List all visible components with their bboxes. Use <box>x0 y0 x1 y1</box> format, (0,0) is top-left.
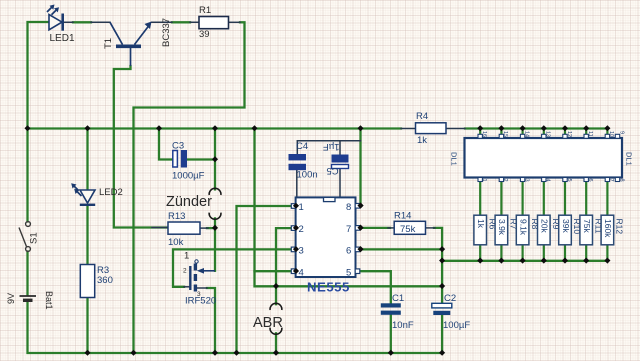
svg-text:360: 360 <box>97 275 113 286</box>
wire bus down through C3 node to Zuender upper pin <box>214 129 216 190</box>
svg-text:C3: C3 <box>172 141 184 152</box>
wire C3 right plate to Zuender node <box>187 158 215 160</box>
svg-text:LED1: LED1 <box>50 33 75 44</box>
node NE555 pin7 contact <box>357 225 363 231</box>
resistor R3 360 <box>80 265 113 298</box>
resistor R1 39 <box>199 5 229 40</box>
svg-text:DL1: DL1 <box>625 152 634 166</box>
svg-text:5: 5 <box>566 179 572 182</box>
node ground rail / pin1 <box>233 350 239 356</box>
junction dots (black diamonds) <box>24 125 610 356</box>
pin 8 <box>355 204 360 209</box>
node ground rail / R3 <box>84 350 90 356</box>
svg-text:2: 2 <box>502 179 508 182</box>
wire bus to R4 left lead <box>401 128 416 130</box>
wire C1 to ground rail <box>390 315 392 353</box>
pin 5 <box>355 269 360 274</box>
wire trigger link ABR node to C2 branch <box>255 271 443 286</box>
svg-text:R14: R14 <box>394 211 411 222</box>
connector ABR <box>253 303 283 334</box>
svg-text:R1: R1 <box>199 5 211 16</box>
wire NE555 pin1 to ground rail <box>237 206 292 353</box>
svg-text:R4: R4 <box>416 111 428 122</box>
op-amp U1 NE555 timer IC body <box>291 197 360 294</box>
svg-text:3: 3 <box>299 246 304 257</box>
wire T1 emitter lead to R1 <box>152 21 200 23</box>
node VCC bus / pin8 branch <box>357 125 363 131</box>
pin 6 <box>355 247 360 252</box>
node NE555 pin2 contact <box>293 225 299 231</box>
svg-text:IRF520: IRF520 <box>185 296 216 307</box>
svg-text:8: 8 <box>346 202 351 213</box>
wire R14 left lead <box>388 227 394 229</box>
svg-text:1k: 1k <box>476 219 486 229</box>
svg-text:6: 6 <box>346 246 351 257</box>
wire MOSFET source lead navy part <box>195 287 207 289</box>
svg-text:S1: S1 <box>29 232 40 244</box>
wire C5 top lead <box>339 141 341 155</box>
svg-text:3.9k: 3.9k <box>497 219 507 236</box>
wire T1 base down-left jog to R13 left <box>114 66 168 228</box>
wire MOSFET gate lead navy part <box>184 286 190 288</box>
svg-text:DL1: DL1 <box>450 152 459 166</box>
svg-text:1: 1 <box>481 179 487 182</box>
capacitor C1 10nF <box>381 293 414 331</box>
switch S1 <box>19 222 40 252</box>
node VCC bus / C3 branch <box>156 125 162 131</box>
DL1 top pin stubs <box>478 134 620 138</box>
svg-text:C4: C4 <box>296 141 308 152</box>
pin 7 <box>355 226 360 231</box>
svg-text:Bat1: Bat1 <box>44 291 54 310</box>
DL1 top pin number labels <box>481 131 624 137</box>
wire NE555 pin3 output to MOSFET gate <box>173 249 291 286</box>
svg-text:10nF: 10nF <box>392 320 414 331</box>
svg-text:R13: R13 <box>168 211 185 222</box>
svg-text:9V: 9V <box>6 293 16 304</box>
svg-text:1: 1 <box>184 251 189 262</box>
wire LED1 cathode lead to T1 collector <box>63 21 110 23</box>
wire battery - to ground rail corner <box>28 302 442 353</box>
svg-text:7: 7 <box>346 224 351 235</box>
wire left rail top segment (battery + to LED1) <box>28 22 49 129</box>
wire T1 emitter to R1 left green segment <box>172 21 190 23</box>
pin 3 <box>291 247 296 252</box>
resistor R14 75k <box>394 211 426 235</box>
node VCC bus / left rail <box>24 125 30 131</box>
wire R4 right lead <box>446 128 465 130</box>
svg-text:2: 2 <box>299 224 304 235</box>
svg-text:6: 6 <box>587 179 593 182</box>
node NE555 pin4 contact <box>293 268 299 274</box>
svg-text:NE555: NE555 <box>307 280 350 295</box>
wire R1 right lead <box>229 21 241 23</box>
wire ladder bottom bus <box>442 260 607 262</box>
wire R14 right down to ladder bottom bus <box>434 228 442 261</box>
svg-text:100n: 100n <box>297 170 318 181</box>
svg-text:100µF: 100µF <box>443 320 470 331</box>
svg-text:7: 7 <box>608 179 614 182</box>
DL1 bottom pin stubs <box>478 178 620 182</box>
wire bus to LED2 <box>86 129 88 190</box>
svg-text:C2: C2 <box>444 293 456 304</box>
svg-text:12: 12 <box>566 131 572 137</box>
node ladder bottom bus junctions <box>477 258 610 264</box>
wire NE555 pin2 to ABR node <box>276 228 291 286</box>
svg-text:5: 5 <box>346 268 351 279</box>
node R13 right / Zuender wire <box>212 225 218 231</box>
LED D1 (LED1) <box>47 5 75 45</box>
svg-text:1µF: 1µF <box>323 141 340 152</box>
svg-text:8: 8 <box>618 179 624 182</box>
resistor R12 160k <box>601 215 625 245</box>
DIP switch DL1 body <box>450 138 634 178</box>
svg-text:4: 4 <box>545 179 551 182</box>
resistor R11 75k <box>580 215 604 245</box>
svg-text:9.1k: 9.1k <box>518 219 528 236</box>
DL1 bottom pin number labels <box>481 179 624 182</box>
wire NE555 pin5 to C1 <box>361 271 391 303</box>
resistor R9 20k <box>538 215 562 245</box>
svg-text:20k: 20k <box>540 219 550 233</box>
svg-text:BC337: BC337 <box>161 18 172 47</box>
node VCC bus / pin4 branch <box>251 125 257 131</box>
svg-text:75k: 75k <box>400 224 416 235</box>
svg-text:C1: C1 <box>392 293 404 304</box>
svg-text:3: 3 <box>523 179 529 182</box>
wire C2 branch down <box>441 261 443 304</box>
wire VCC bus horizontal <box>28 127 402 129</box>
node ground rail / C1 <box>388 350 394 356</box>
wire Zuender lower pin to R13 right node and down to MOSFET drain <box>214 218 216 270</box>
node NE555 pin6 contact <box>357 246 363 252</box>
wire R13 right lead green part <box>207 227 215 229</box>
wire DL1 top pin leads from VCC bus <box>480 129 607 135</box>
svg-text:2: 2 <box>183 268 187 275</box>
node ground rail / C2 <box>439 350 445 356</box>
wire MOSFET source to ground rail <box>207 288 215 353</box>
node ladder bus / C2 branch <box>439 258 445 264</box>
wire ladder resistor bottoms to bottom bus <box>480 245 607 261</box>
resistor R8 9.1k <box>516 215 540 245</box>
svg-text:1: 1 <box>299 202 304 213</box>
wire NE555 pin7 to R14 <box>361 227 391 229</box>
LED D2 (LED2) <box>71 183 123 205</box>
pin 4 <box>291 269 296 274</box>
resistor R10 39k <box>559 215 583 245</box>
wire R3 to ground rail <box>86 298 88 354</box>
node NE555 pin1 contact <box>293 203 299 209</box>
connector Zuender (igniter plug) <box>166 188 221 219</box>
wire R1 right, down and across to T1 base net <box>134 22 245 353</box>
transistor Q1 IRF520 MOSFET <box>183 251 216 307</box>
node trigger link / C2 branch <box>439 283 445 289</box>
node ground rail / ABR <box>273 350 279 356</box>
capacitor C5 1uF (rotated 180) <box>323 141 349 176</box>
wire bus to NE555 pin4 <box>255 129 292 272</box>
svg-text:10k: 10k <box>168 237 184 248</box>
wire C4 bottom lead to NE555 pin1 <box>296 170 298 203</box>
wire ABR node to ABR upper pin <box>275 286 277 304</box>
node NE555 pin3 contact <box>293 246 299 252</box>
wire switch S1 to battery <box>26 252 28 295</box>
node VCC bus / Zuender branch <box>212 125 218 131</box>
node ground rail / R1 net <box>130 350 136 356</box>
node NE555 pin8 contact <box>357 203 363 209</box>
node ground rail / MOSFET source <box>212 350 218 356</box>
wire R13 right lead <box>200 227 208 229</box>
capacitor C2 100uF <box>432 293 471 331</box>
wire bus to C3 left plate <box>159 129 172 160</box>
node C3 right / Zuender wire <box>212 156 218 162</box>
wire R13 left lead <box>152 227 168 229</box>
resistor R13 10k <box>168 211 200 248</box>
svg-text:R12: R12 <box>615 219 625 235</box>
node ladder top bus junctions <box>477 125 610 131</box>
wire LED1 anode green segment <box>73 21 91 23</box>
resistor R6 1k <box>474 215 498 245</box>
svg-text:LED2: LED2 <box>99 187 123 198</box>
wire DL1 bottom pins to ladder resistor tops <box>480 182 607 216</box>
wire left rail: bus to switch S1 <box>26 129 28 222</box>
wire NE555 pin6 to R14 branch <box>361 248 443 250</box>
svg-text:C5: C5 <box>326 165 338 176</box>
svg-text:9: 9 <box>618 131 624 134</box>
node NE555 pin contact dots (drawn on top) <box>293 203 364 274</box>
svg-text:Zünder: Zünder <box>166 194 212 210</box>
node VCC bus / LED2 branch <box>84 125 90 131</box>
pin 2 <box>291 226 296 231</box>
node ABR / pin2 / trigger link <box>273 283 279 289</box>
svg-text:39k: 39k <box>561 219 571 233</box>
resistor R7 3.9k <box>495 215 518 245</box>
wire ABR lower pin to ground rail <box>275 333 277 353</box>
svg-text:11: 11 <box>587 131 593 137</box>
wire bus to NE555 pin8 <box>356 129 361 206</box>
svg-text:16: 16 <box>481 131 487 137</box>
resistor R4 1k <box>416 111 447 146</box>
pin 1 <box>291 204 296 209</box>
wire R14 right lead <box>426 227 436 229</box>
capacitor C3 1000uF <box>172 141 205 182</box>
svg-text:75k: 75k <box>582 219 592 233</box>
svg-text:160k: 160k <box>603 219 613 238</box>
svg-text:T1: T1 <box>103 38 114 49</box>
svg-text:1000µF: 1000µF <box>172 171 205 182</box>
svg-text:10: 10 <box>608 131 614 137</box>
svg-text:ABR: ABR <box>253 315 283 331</box>
svg-text:14: 14 <box>523 131 529 137</box>
wire LED2 cathode to R3 <box>86 206 88 265</box>
node pin6 / C2 branch <box>439 246 445 252</box>
svg-text:13: 13 <box>545 131 551 137</box>
wire C2 to ground rail <box>441 315 443 353</box>
transistor T1 BC337 <box>103 18 172 66</box>
wire C5 bottom lead to NE555 body <box>339 168 341 196</box>
svg-text:39: 39 <box>199 29 210 40</box>
svg-text:15: 15 <box>502 131 508 137</box>
svg-text:1k: 1k <box>417 135 427 146</box>
component lead wires (navy) <box>63 22 465 288</box>
battery Bat1 9V <box>6 291 54 310</box>
wire R4 right to ladder top bus <box>465 127 607 129</box>
svg-text:4: 4 <box>299 268 304 279</box>
wire C4 top lead to VCC vertical <box>297 141 360 154</box>
capacitor C4 100n <box>289 141 318 181</box>
